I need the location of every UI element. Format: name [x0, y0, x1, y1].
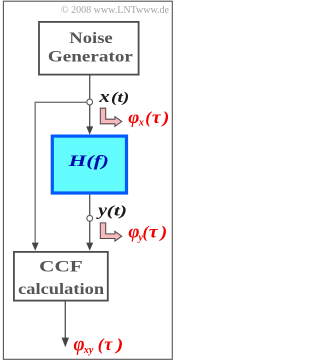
svg-text:© 2008 www.LNTwww.de: © 2008 www.LNTwww.de [61, 5, 170, 16]
arrowhead into CCF (right) [86, 243, 93, 251]
svg-text:φ: φ [74, 333, 85, 356]
arrowhead into CCF (left) [32, 243, 39, 251]
svg-text:CCF: CCF [39, 259, 82, 276]
svg-text:(t): (t) [111, 90, 129, 106]
wire: node y to CCF [89, 221, 91, 243]
wire: CCF output [64, 302, 66, 339]
label x(t) [98, 88, 129, 107]
svg-text:Generator: Generator [48, 48, 133, 65]
svg-text:Noise: Noise [69, 30, 113, 47]
label phi_xy(tau) [74, 333, 124, 356]
block: CCF calculation [14, 252, 108, 301]
node x circle [87, 99, 93, 105]
svg-text:x: x [138, 117, 144, 128]
arrowhead into H(f) [86, 126, 93, 134]
svg-text:(t): (t) [107, 204, 127, 220]
measurement arrow icon phi_y [100, 223, 122, 241]
svg-text:H(f): H(f) [67, 152, 108, 170]
svg-text:calculation: calculation [18, 281, 105, 298]
svg-text:): ) [161, 108, 170, 127]
wire: noise generator output [89, 76, 91, 100]
label y(t) [96, 201, 127, 220]
svg-text:φ: φ [128, 108, 139, 128]
svg-text:): ) [158, 223, 167, 242]
svg-text:τ: τ [152, 108, 161, 128]
label phi_y(tau) [128, 222, 167, 244]
label phi_x(tau) [128, 108, 169, 129]
svg-text:τ: τ [149, 222, 158, 242]
measurement arrow icon phi_x [100, 108, 122, 126]
node y circle [87, 215, 93, 221]
svg-text:τ: τ [104, 334, 113, 354]
wire: node x to H(f) [89, 105, 91, 127]
block: H(f) filter [52, 136, 126, 193]
svg-text:): ) [114, 336, 123, 355]
wire: branch from node x to left [35, 102, 87, 243]
svg-text:x: x [98, 88, 110, 107]
block: Noise Generator [39, 22, 139, 75]
svg-text:xy: xy [83, 345, 94, 356]
wire: H(f) to node y [89, 195, 91, 216]
arrowhead output [62, 338, 69, 348]
outer frame [3, 1, 172, 359]
